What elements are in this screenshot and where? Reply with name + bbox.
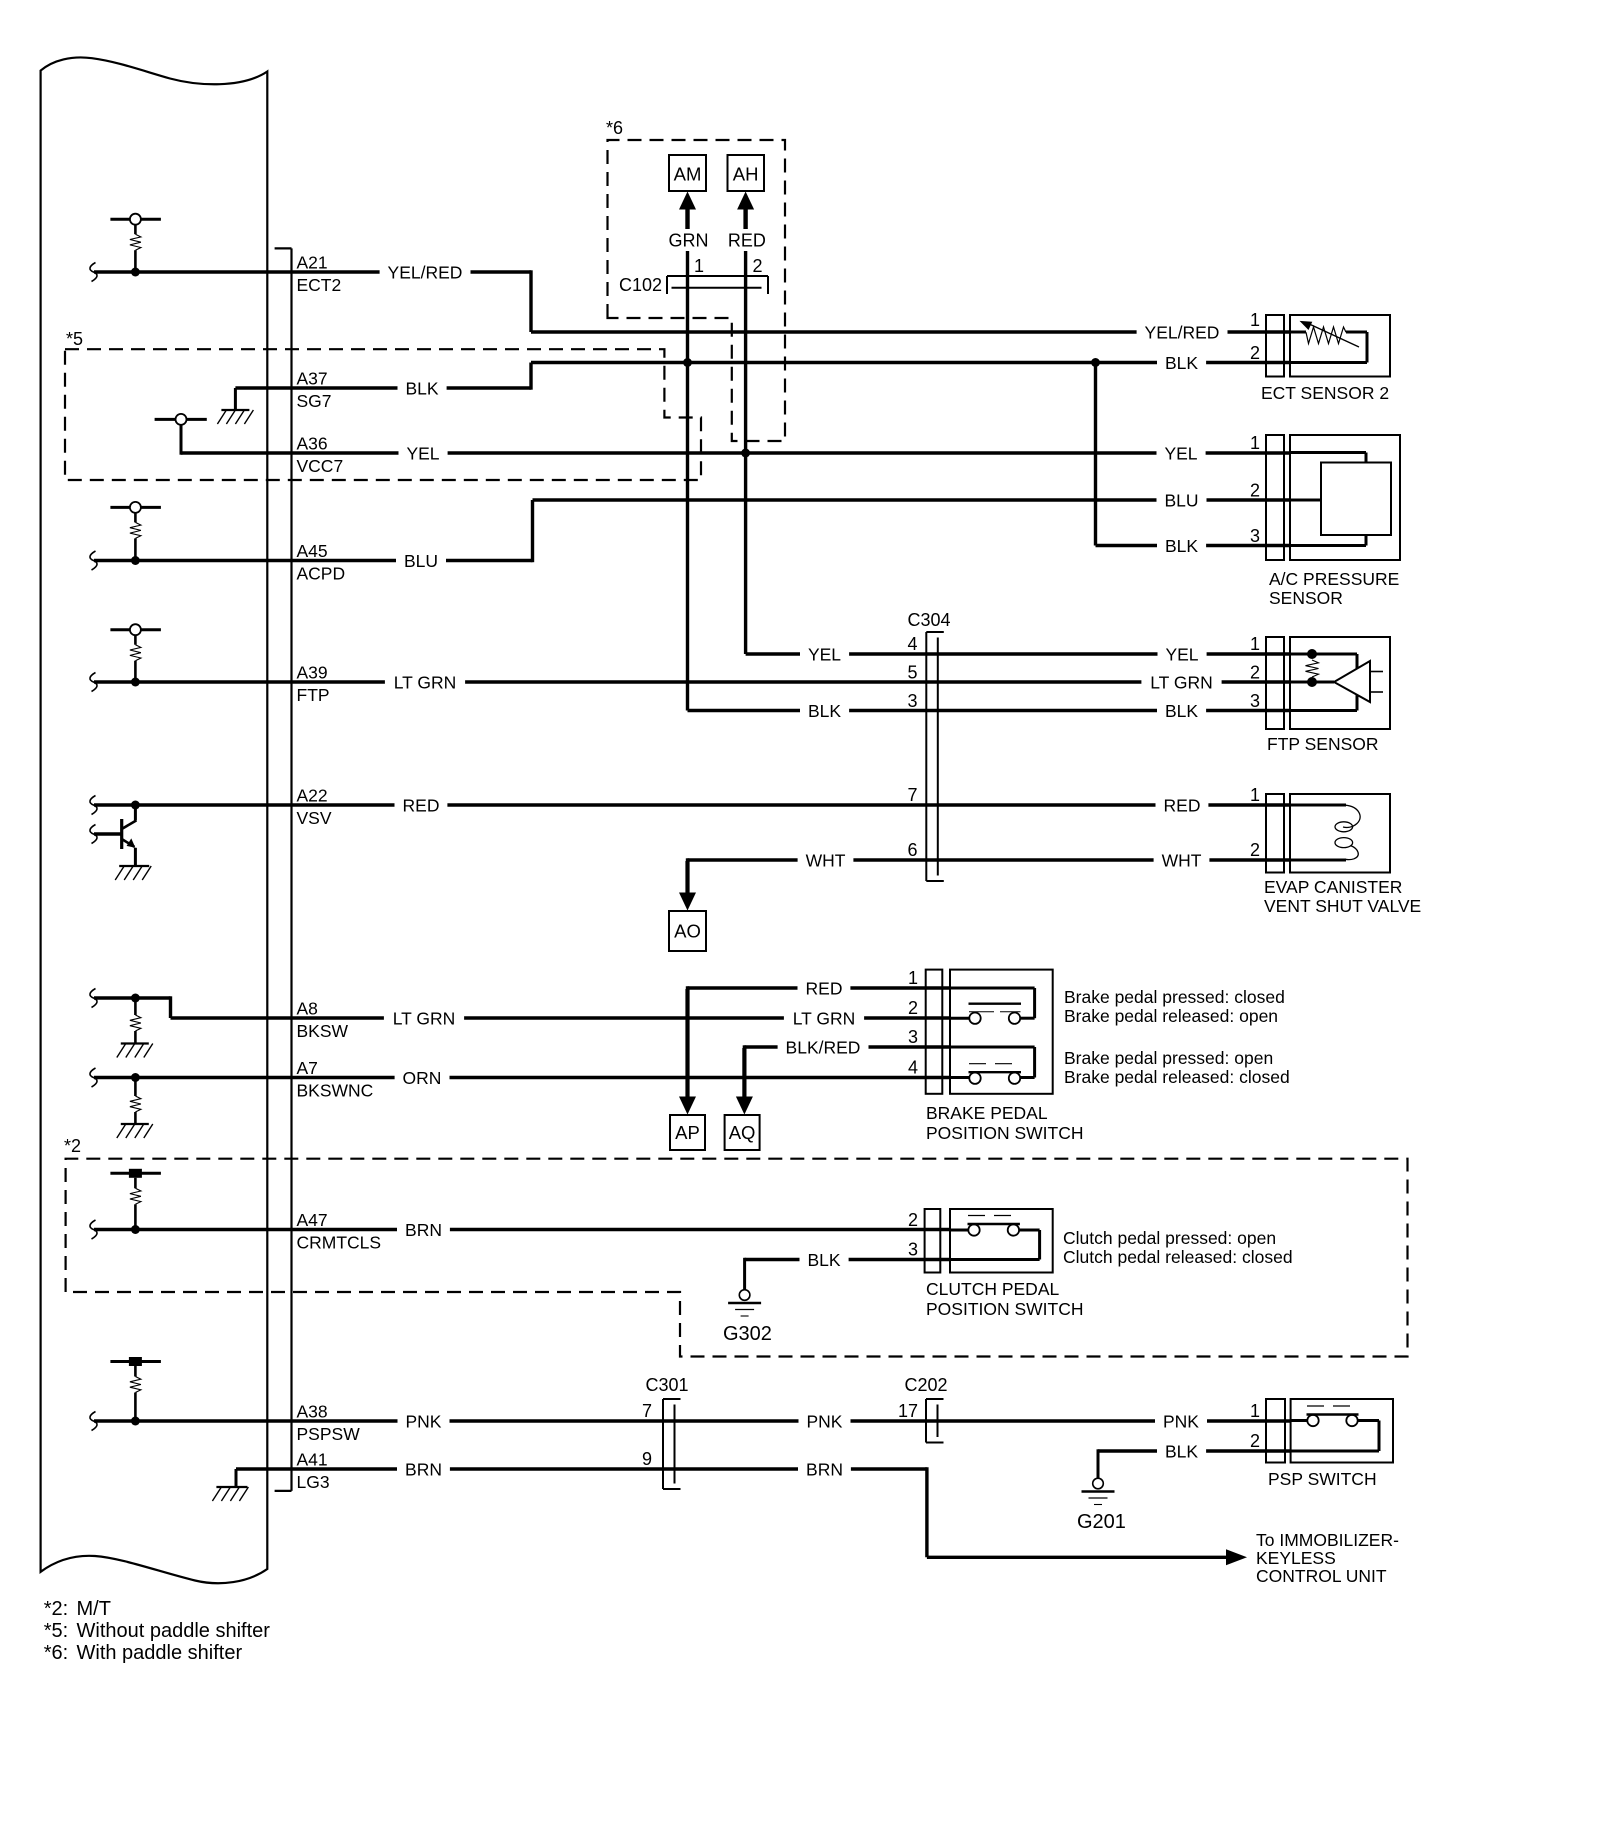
svg-text:Clutch pedal released: closed: Clutch pedal released: closed (1063, 1247, 1293, 1267)
svg-text:*2:: *2: (44, 1598, 68, 1620)
svg-text:CLUTCH PEDAL: CLUTCH PEDAL (926, 1279, 1059, 1299)
svg-text:AM: AM (674, 164, 702, 185)
svg-text:A22: A22 (297, 786, 328, 806)
svg-text:A41: A41 (297, 1450, 328, 1470)
label BLK at FTP sensor (1157, 700, 1206, 722)
svg-text:4: 4 (907, 634, 917, 654)
svg-text:RED: RED (1164, 795, 1201, 815)
svg-text:9: 9 (642, 1449, 652, 1469)
svg-text:GRN: GRN (669, 230, 709, 250)
wire BLK clutch pedal pin3 to G302 (745, 1258, 950, 1261)
dashed box *6 (with paddle shifter) (608, 140, 786, 441)
svg-text:BRN: BRN (405, 1459, 442, 1479)
label BLU (396, 550, 446, 572)
label YEL/RED at ECT sensor (1137, 321, 1228, 343)
transistor (driver) at pin A22 (131, 801, 140, 810)
wire break A8 (90, 989, 97, 1008)
wire break A39 (90, 673, 97, 692)
label BRN C301-9 (798, 1458, 851, 1480)
label YEL at A/C sensor (1157, 442, 1206, 464)
node AP (679, 1097, 696, 1115)
svg-text:BKSWNC: BKSWNC (297, 1081, 374, 1101)
pull-down resistor to ground, pin A7 (131, 1073, 140, 1082)
svg-text:A39: A39 (297, 663, 328, 683)
pull-up resistor (rail tap), pin A47 (110, 1172, 160, 1175)
wire A38 PSPSW (PNK) (94, 1419, 1291, 1422)
svg-text:BLU: BLU (404, 551, 438, 571)
clutch pedal position switch connector (925, 1209, 941, 1273)
label BLK C304 pin3 (800, 700, 849, 722)
svg-text:ECT2: ECT2 (297, 275, 342, 295)
connector C301 (662, 1399, 664, 1489)
label RED brake pin1 (798, 977, 851, 999)
ground G302 (739, 1290, 750, 1301)
svg-text:A45: A45 (297, 541, 328, 561)
arrowhead to immobilizer (1226, 1549, 1247, 1565)
FTP sensor connector (1266, 637, 1284, 729)
svg-text:VSV: VSV (297, 808, 332, 828)
wire A21 ECT2 (YEL/RED) (94, 270, 531, 273)
svg-text:2: 2 (1250, 343, 1260, 363)
svg-text:RED: RED (403, 795, 440, 815)
wire GRN paddle-shifter / sensor ground branch (686, 208, 689, 711)
svg-text:BRN: BRN (405, 1220, 442, 1240)
svg-text:*5: *5 (66, 329, 83, 349)
svg-text:SG7: SG7 (297, 391, 332, 411)
svg-text:FTP SENSOR: FTP SENSOR (1267, 734, 1379, 754)
svg-text:RED: RED (728, 230, 766, 250)
switch contact VCC7 (155, 418, 207, 421)
label YEL at FTP sensor (1158, 643, 1207, 665)
svg-text:1: 1 (694, 256, 704, 276)
svg-text:2: 2 (1250, 481, 1260, 501)
svg-text:CRMTCLS: CRMTCLS (297, 1233, 382, 1253)
ECM connector pin column (290, 248, 292, 1491)
wire A22 VSV (RED) (94, 803, 1290, 806)
svg-text:*6: *6 (606, 118, 623, 138)
svg-text:BLK: BLK (807, 1250, 840, 1270)
wire break A47 (90, 1220, 97, 1239)
svg-text:Clutch pedal pressed: open: Clutch pedal pressed: open (1063, 1228, 1276, 1248)
label YEL (399, 442, 448, 464)
wire A7 BKSWNC (ORN) (94, 1076, 950, 1079)
svg-text:3: 3 (908, 1240, 918, 1260)
ECM/PCM box (torn-edge outline) (41, 57, 268, 1583)
FTP sensor (1290, 637, 1390, 729)
svg-text:AP: AP (675, 1122, 700, 1143)
label BLK at PSP switch (1157, 1440, 1206, 1462)
svg-text:LT GRN: LT GRN (393, 1008, 456, 1028)
wire BLK ECT sensor ground branch (1094, 363, 1097, 546)
svg-text:C202: C202 (905, 1375, 948, 1395)
svg-text:*2: *2 (64, 1136, 81, 1156)
svg-text:BRAKE PEDAL: BRAKE PEDAL (926, 1103, 1048, 1123)
wire break A22 collector (90, 796, 97, 815)
label WHT at EVAP valve (1154, 849, 1210, 871)
pull-down resistor to ground, pin A8 (131, 994, 140, 1003)
svg-text:6: 6 (907, 840, 917, 860)
label BLK at ECT sensor (1157, 352, 1206, 374)
pull-up resistor with switch contact, pin A45 (110, 506, 160, 509)
wire RED paddle-shifter / VCC branch (744, 208, 747, 654)
svg-text:BLK: BLK (808, 701, 841, 721)
wire break A7 (90, 1068, 97, 1087)
svg-text:BLK: BLK (1165, 353, 1198, 373)
wire break A22 base (90, 825, 97, 844)
dashed box *5 (without paddle shifter) (65, 349, 701, 480)
svg-text:2: 2 (1250, 1431, 1260, 1451)
svg-text:BLU: BLU (1164, 490, 1198, 510)
label RED (395, 794, 448, 816)
wire WHT vent shut valve to AO (686, 858, 689, 895)
A/C pressure sensor connector (1266, 435, 1284, 560)
svg-text:LT GRN: LT GRN (793, 1008, 856, 1028)
junction BLK branch to A/C pressure sensor (1091, 358, 1100, 367)
svg-text:AO: AO (674, 921, 701, 942)
svg-text:Brake pedal pressed: open: Brake pedal pressed: open (1064, 1048, 1273, 1068)
wire A39 FTP (LT GRN) (94, 680, 1290, 683)
svg-text:PSPSW: PSPSW (297, 1424, 361, 1444)
svg-text:BLK: BLK (1165, 536, 1198, 556)
label YEL/RED (380, 261, 471, 283)
svg-text:WHT: WHT (806, 850, 846, 870)
svg-text:C102: C102 (619, 275, 662, 295)
svg-text:*5:: *5: (44, 1620, 68, 1642)
svg-text:CONTROL UNIT: CONTROL UNIT (1256, 1566, 1387, 1586)
svg-text:4: 4 (908, 1058, 918, 1078)
svg-text:YEL: YEL (1164, 443, 1197, 463)
svg-text:A38: A38 (297, 1402, 328, 1422)
label ORN (395, 1067, 450, 1089)
node AM (669, 155, 706, 191)
svg-text:VENT SHUT VALVE: VENT SHUT VALVE (1264, 896, 1421, 916)
svg-text:C301: C301 (646, 1375, 689, 1395)
svg-text:2: 2 (908, 1210, 918, 1230)
svg-text:BLK: BLK (405, 378, 438, 398)
A/C pressure sensor (1290, 435, 1400, 560)
svg-text:1: 1 (1250, 310, 1260, 330)
label BLK (398, 377, 447, 399)
junction GRN/BLK sensor ground (683, 358, 692, 367)
label WHT C304 pin6 (798, 849, 854, 871)
svg-text:YEL/RED: YEL/RED (1145, 322, 1220, 342)
svg-text:PNK: PNK (807, 1411, 843, 1431)
svg-text:AH: AH (733, 164, 759, 185)
svg-text:A47: A47 (297, 1210, 328, 1230)
svg-text:YEL: YEL (1165, 644, 1198, 664)
label LT GRN brake (384, 1007, 464, 1029)
svg-text:RED: RED (806, 978, 843, 998)
node AH (728, 155, 765, 191)
svg-text:3: 3 (907, 691, 917, 711)
svg-text:BLK: BLK (1165, 1441, 1198, 1461)
svg-text:5: 5 (907, 663, 917, 683)
svg-text:A37: A37 (297, 369, 328, 389)
wire A36 VCC7 (YEL) (181, 451, 1290, 454)
wire A47 CRMTCLS (BRN) (94, 1228, 950, 1231)
svg-text:ECT SENSOR 2: ECT SENSOR 2 (1261, 383, 1389, 403)
svg-text:G302: G302 (723, 1323, 772, 1345)
svg-text:3: 3 (1250, 691, 1260, 711)
brake pedal position switch (950, 970, 1053, 1094)
svg-text:A21: A21 (297, 253, 328, 273)
label RED at EVAP valve (1156, 794, 1209, 816)
svg-text:EVAP CANISTER: EVAP CANISTER (1264, 877, 1402, 897)
pull-up resistor (rail tap), pin A38 (110, 1360, 160, 1363)
svg-text:WHT: WHT (1162, 850, 1202, 870)
wire A8 BKSW (LT GRN) (94, 996, 171, 999)
svg-text:POSITION SWITCH: POSITION SWITCH (926, 1123, 1084, 1143)
svg-text:1: 1 (1250, 433, 1260, 453)
label BLU at A/C sensor (1157, 489, 1207, 511)
wire break A45 (90, 551, 97, 570)
svg-text:M/T: M/T (77, 1598, 111, 1620)
svg-text:17: 17 (898, 1401, 918, 1421)
svg-text:With paddle shifter: With paddle shifter (77, 1642, 243, 1664)
PSP switch (1291, 1399, 1393, 1463)
clutch pedal position switch (950, 1209, 1053, 1273)
svg-text:7: 7 (642, 1401, 652, 1421)
wire BLK PSP switch pin2 to G201 (1098, 1449, 1291, 1452)
svg-text:PNK: PNK (406, 1411, 442, 1431)
wire BLK/RED brake pedal pin3 to AQ (744, 1045, 950, 1048)
svg-text:SENSOR: SENSOR (1269, 588, 1343, 608)
svg-text:LG3: LG3 (297, 1472, 330, 1492)
label BLK clutch pin3 (800, 1249, 849, 1271)
svg-text:Without paddle shifter: Without paddle shifter (77, 1620, 271, 1642)
wire break A38 (90, 1412, 97, 1431)
wire A41 LG3 (BRN) (236, 1467, 927, 1470)
svg-text:Brake pedal released: open: Brake pedal released: open (1064, 1006, 1278, 1026)
svg-text:2: 2 (1250, 840, 1260, 860)
EVAP vent shut valve connector (1266, 794, 1284, 873)
label BRN (397, 1219, 450, 1241)
svg-text:PNK: PNK (1163, 1411, 1199, 1431)
svg-text:1: 1 (1250, 634, 1260, 654)
svg-text:3: 3 (1250, 526, 1260, 546)
svg-text:BLK: BLK (1165, 701, 1198, 721)
svg-text:A7: A7 (297, 1058, 318, 1078)
ground LG3 inside ECM (216, 1486, 247, 1488)
ground SG7 inside ECM (221, 409, 249, 411)
svg-text:YEL/RED: YEL/RED (388, 262, 463, 282)
svg-text:YEL: YEL (808, 644, 841, 664)
junction RED/VCC7 (741, 449, 750, 458)
PSP switch connector (1266, 1399, 1285, 1463)
label PNK (398, 1410, 450, 1432)
ground at transistor emitter (119, 865, 149, 867)
svg-text:PSP SWITCH: PSP SWITCH (1268, 1469, 1377, 1489)
EVAP canister vent shut valve (solenoid coil) (1290, 794, 1390, 873)
svg-text:To IMMOBILIZER-: To IMMOBILIZER- (1256, 1530, 1399, 1550)
svg-text:1: 1 (1250, 785, 1260, 805)
brake pedal position switch connector (926, 970, 943, 1094)
svg-text:2: 2 (1250, 663, 1260, 683)
svg-text:BLK/RED: BLK/RED (786, 1037, 861, 1057)
svg-text:*6:: *6: (44, 1642, 68, 1664)
ECT sensor 2 (thermistor) (1290, 315, 1390, 377)
svg-text:ORN: ORN (403, 1068, 442, 1088)
node AQ (736, 1097, 753, 1115)
wire A37 SG7 (BLK) (235, 386, 531, 389)
wire BRN to immobilizer-keyless control unit (925, 1467, 928, 1557)
svg-text:G201: G201 (1077, 1511, 1126, 1533)
wire break A21 (90, 263, 97, 282)
wire RED brake pedal pin1 to AP (688, 986, 951, 989)
pull-up resistor with switch contact, pin A39 (110, 628, 160, 631)
ground G201 (1093, 1478, 1104, 1489)
label YEL C304 pin4 (800, 643, 849, 665)
svg-text:VCC7: VCC7 (297, 456, 344, 476)
connector C102 (667, 275, 768, 277)
svg-text:1: 1 (1250, 1401, 1260, 1421)
dashed box *2 (M/T) (66, 1159, 1408, 1357)
label LT GRN brake pin2 (784, 1007, 864, 1029)
svg-text:BRN: BRN (806, 1459, 843, 1479)
label BRN LG3 (397, 1458, 450, 1480)
svg-text:POSITION SWITCH: POSITION SWITCH (926, 1299, 1084, 1319)
svg-text:FTP: FTP (297, 685, 330, 705)
svg-text:2: 2 (752, 256, 762, 276)
svg-text:LT GRN: LT GRN (1150, 672, 1213, 692)
pull-up resistor with switch contact, pin A21 (110, 218, 160, 221)
svg-text:C304: C304 (908, 610, 951, 630)
connector C202 (925, 1399, 927, 1443)
label PNK at PSP switch (1155, 1410, 1207, 1432)
svg-text:7: 7 (907, 785, 917, 805)
svg-text:LT GRN: LT GRN (394, 672, 457, 692)
svg-text:YEL: YEL (406, 443, 439, 463)
svg-text:ACPD: ACPD (297, 564, 346, 584)
svg-text:KEYLESS: KEYLESS (1256, 1548, 1336, 1568)
svg-text:3: 3 (908, 1027, 918, 1047)
label PNK C202 (799, 1410, 851, 1432)
svg-text:A8: A8 (297, 999, 318, 1019)
connector C304 (925, 632, 927, 881)
svg-text:A36: A36 (297, 434, 328, 454)
label LT GRN (385, 671, 465, 693)
svg-text:AQ: AQ (729, 1122, 756, 1143)
wire A45 ACPD (BLU) (94, 559, 533, 562)
svg-text:Brake pedal released: closed: Brake pedal released: closed (1064, 1067, 1290, 1087)
label LT GRN at FTP sensor (1141, 671, 1221, 693)
svg-text:A/C PRESSURE: A/C PRESSURE (1269, 569, 1399, 589)
svg-text:1: 1 (908, 968, 918, 988)
svg-text:2: 2 (908, 998, 918, 1018)
label BLK/RED brake pin3 (778, 1036, 869, 1058)
label BLK at A/C sensor (1157, 535, 1206, 557)
ECT sensor 2 connector (1266, 315, 1284, 377)
svg-text:BKSW: BKSW (297, 1021, 349, 1041)
svg-text:Brake pedal pressed: closed: Brake pedal pressed: closed (1064, 987, 1285, 1007)
node AO (679, 893, 696, 911)
